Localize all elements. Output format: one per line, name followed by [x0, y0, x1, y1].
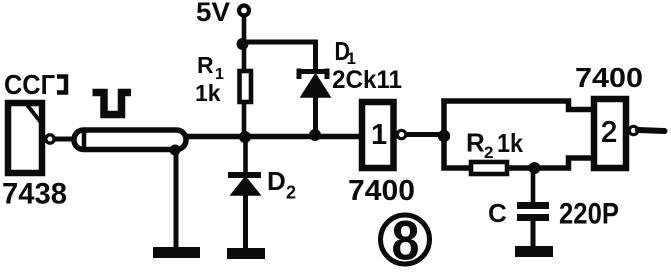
svg-text:R: R	[466, 128, 485, 158]
pulse waveform symbol	[93, 93, 132, 115]
wire node B down to capacitor	[531, 168, 536, 203]
svg-text:220P: 220P	[559, 198, 619, 231]
gate U1 output bubble	[397, 130, 405, 138]
gate U2 output bubble	[629, 126, 637, 134]
svg-text:2Ck11: 2Ck11	[332, 66, 402, 94]
svg-text:1k: 1k	[497, 128, 523, 158]
svg-text:7438: 7438	[2, 178, 67, 211]
svg-text:5V: 5V	[196, 0, 230, 27]
ground under delay line	[153, 247, 200, 258]
node R1 main line junction	[239, 131, 251, 143]
label D1	[335, 36, 356, 68]
gate U1 body	[362, 102, 394, 168]
svg-text:2: 2	[601, 117, 617, 149]
label R1	[197, 52, 224, 83]
svg-text:7400: 7400	[575, 62, 643, 93]
svg-text:8: 8	[392, 209, 420, 272]
wire bubble to delay line	[55, 137, 74, 142]
wire D2 branch down	[243, 137, 248, 172]
wire D1 to main line	[313, 96, 318, 136]
ground under capacitor	[515, 246, 553, 257]
svg-text:7400: 7400	[348, 175, 415, 207]
diode D2	[228, 175, 261, 195]
wire main line to gate 1 input	[186, 134, 362, 140]
node D1 main line junction	[309, 129, 321, 141]
resistor R1	[240, 71, 252, 102]
wire down from delay line	[174, 150, 179, 248]
ground under D2	[227, 248, 265, 259]
figure number 8 circle	[381, 215, 430, 264]
gate U3 output bubble	[46, 135, 54, 143]
delay line	[74, 130, 186, 150]
svg-text:2: 2	[484, 143, 493, 162]
svg-text:1k: 1k	[195, 80, 221, 106]
wire node to R1	[242, 44, 247, 71]
svg-text:1: 1	[371, 119, 387, 151]
node B	[529, 162, 541, 174]
wire branch to D1	[242, 42, 316, 69]
diode D1	[298, 69, 331, 98]
gate U3 7438 body	[8, 101, 43, 173]
svg-text:2: 2	[286, 183, 296, 203]
capacitor C plates	[517, 202, 549, 221]
wire 5V down to node	[242, 16, 247, 47]
wire node A down to R2	[444, 136, 471, 168]
wire D2 to ground	[243, 194, 248, 249]
wire top branch to gate U2 upper input	[444, 101, 593, 136]
label R2	[466, 128, 493, 163]
wire node B to gate U2 lower input	[535, 158, 594, 168]
label D2	[267, 166, 296, 203]
svg-text:ССГ: ССГ	[4, 69, 55, 100]
node A	[438, 130, 450, 142]
wire capacitor to ground	[531, 221, 536, 247]
label CCГ]	[4, 69, 66, 100]
gate U2 body	[594, 99, 626, 168]
resistor R2	[471, 162, 507, 174]
node 5V junction	[237, 38, 249, 50]
svg-text:D: D	[267, 166, 286, 196]
power 5V terminal	[239, 6, 249, 16]
svg-text:C: C	[488, 198, 507, 228]
wire R2 to node B	[507, 165, 536, 171]
wire gate U2 output stub	[638, 130, 665, 131]
wire gate U1 output to node A	[406, 132, 446, 137]
node junction at delay line bottom	[170, 145, 181, 156]
svg-text:R: R	[197, 52, 214, 78]
wire R1 to main line	[242, 102, 247, 137]
